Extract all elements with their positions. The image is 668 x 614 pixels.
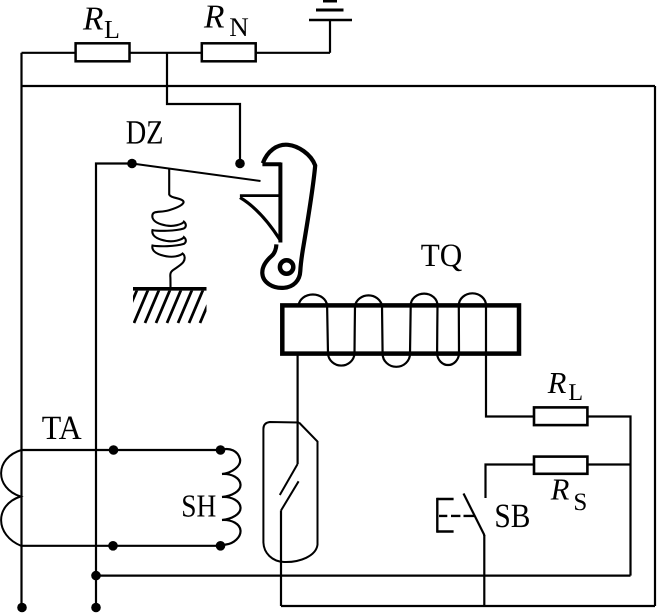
svg-text:N: N <box>229 12 249 42</box>
wire branch to DZ contact <box>167 53 240 164</box>
svg-text:SH: SH <box>181 487 216 523</box>
node dot DZ right <box>235 159 245 169</box>
armature lever DZ <box>132 164 261 182</box>
svg-text:R: R <box>550 472 570 506</box>
svg-text:SB: SB <box>494 498 530 535</box>
terminal dot mid <box>91 603 101 613</box>
node dot SH top <box>216 445 226 455</box>
wire SB lower lead <box>483 535 485 606</box>
svg-text:R: R <box>547 366 567 400</box>
resistor RN <box>202 43 256 61</box>
lamp blade 1 <box>280 464 298 495</box>
core TQ <box>282 305 519 353</box>
svg-text:R: R <box>203 0 224 36</box>
wire DZ left lead <box>96 164 132 608</box>
wire RL to right rail <box>588 417 631 576</box>
wire lamp bottom lead <box>280 511 282 607</box>
lamp blade 2 <box>281 481 299 510</box>
pivot hole <box>280 260 293 273</box>
latch vertical bar <box>278 163 282 243</box>
wire bottom return <box>281 605 655 607</box>
svg-text:TQ: TQ <box>421 238 463 274</box>
latch hook outline <box>262 145 315 288</box>
wire battery lead <box>329 21 331 53</box>
pawl curve <box>240 198 280 240</box>
node dot TA top <box>109 445 119 455</box>
svg-text:L: L <box>568 380 583 406</box>
switch SB blade <box>464 494 485 537</box>
wire TA bottom lead <box>21 545 220 547</box>
transformer TA winding <box>1 450 21 546</box>
resistor RL right <box>534 407 587 425</box>
spring <box>152 168 186 288</box>
node dot mid bus <box>91 571 101 581</box>
latch step bar <box>262 162 281 166</box>
pushbutton bracket <box>437 498 474 533</box>
wire RS left lead <box>486 465 534 499</box>
node dot DZ left <box>127 159 137 169</box>
wire second bus <box>22 85 656 87</box>
node dot TA bottom <box>108 541 118 551</box>
wire TQ right lead <box>486 352 534 417</box>
battery E <box>309 1 352 20</box>
svg-text:L: L <box>104 15 120 44</box>
coil TQ <box>299 293 486 367</box>
wire left outer vertical <box>20 53 22 607</box>
resistor RS <box>534 457 587 474</box>
wire TQ left lead into lamp <box>297 352 299 464</box>
wire top bus <box>22 52 331 54</box>
coil SH <box>221 449 241 546</box>
ground anchor hatched <box>112 289 214 323</box>
svg-text:TA: TA <box>42 410 82 447</box>
pawl top edge <box>240 194 281 197</box>
svg-text:S: S <box>573 489 587 516</box>
resistor RL top <box>76 43 130 61</box>
terminal dot left <box>17 603 27 613</box>
svg-text:R: R <box>82 0 103 37</box>
lamp capsule <box>263 422 317 562</box>
wire TA top lead <box>21 449 220 451</box>
wire right outer vertical <box>654 86 656 606</box>
svg-text:DZ: DZ <box>126 114 164 151</box>
wire middle bottom bus <box>96 574 631 576</box>
wire RS right lead <box>588 463 631 465</box>
node dot SH bottom <box>216 541 226 551</box>
